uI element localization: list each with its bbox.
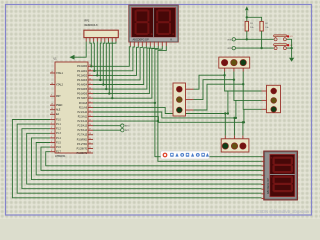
svg-text:XTAL1: XTAL1 [56, 72, 64, 75]
DS2 pin stubs [262, 156, 265, 158]
svg-text:9: 9 [51, 95, 52, 97]
svg-text:P1.6: P1.6 [56, 147, 61, 149]
svg-text:CSDN @hkmdfvb_zbgxqiov: CSDN @hkmdfvb_zbgxqiov [256, 209, 310, 214]
svg-text:P2.1/A9: P2.1/A9 [79, 106, 88, 109]
svg-text:P2.6/A14: P2.6/A14 [78, 129, 88, 132]
wire P1.4 net [31, 138, 261, 180]
svg-text:P3.0/RXD: P3.0/RXD [77, 139, 88, 141]
svg-text:7: 7 [51, 146, 52, 148]
TL4 pin stubs [225, 136, 243, 139]
svg-text:P0.4/AD4: P0.4/AD4 [77, 83, 88, 86]
svg-text:P1.1: P1.1 [56, 124, 61, 126]
wire P0.6 net [93, 42, 154, 95]
svg-text:22: 22 [89, 106, 91, 108]
wire buttons to ground [287, 39, 293, 58]
svg-text:27: 27 [89, 129, 91, 131]
svg-text:PSEN: PSEN [56, 105, 63, 107]
svg-text:3: 3 [51, 127, 52, 129]
svg-text:35: 35 [89, 83, 91, 85]
wire P2 signal to traffic light TL4 pin 2 [93, 112, 236, 136]
svg-text:32: 32 [89, 97, 91, 99]
svg-text:P0.1/AD1: P0.1/AD1 [77, 70, 88, 73]
resistor R2 10k [260, 21, 269, 31]
7-segment display DS1 (top, 2-digit) [129, 5, 179, 46]
svg-text:RST: RST [56, 96, 61, 98]
wire P0.7 net [93, 42, 158, 100]
svg-text:29: 29 [51, 104, 53, 106]
svg-text:P0.7/AD7: P0.7/AD7 [77, 97, 88, 100]
svg-text:6: 6 [51, 141, 52, 143]
wire P0.3 net [93, 42, 142, 82]
wire VCC branch to R2 [246, 16, 262, 21]
svg-text:28: 28 [89, 133, 91, 135]
svg-text:P1.5: P1.5 [56, 142, 61, 144]
button K1 [274, 35, 294, 41]
power terminal VCC (left arrow) on RP1 common [70, 42, 87, 60]
svg-text:ABCDEFG DP: ABCDEFG DP [133, 39, 150, 42]
svg-text:21: 21 [89, 101, 91, 103]
TL2 pin stubs [225, 68, 244, 71]
svg-text:AT89C51: AT89C51 [55, 155, 66, 158]
svg-text:P0.2/AD2: P0.2/AD2 [77, 74, 88, 77]
ground terminal [289, 58, 294, 62]
wire red lamp net: TL1-TL2-TL3 [194, 72, 262, 115]
svg-text:P0.3/AD3: P0.3/AD3 [77, 79, 88, 82]
svg-text:34: 34 [89, 87, 91, 89]
wire P1.7 net [46, 152, 262, 166]
svg-text:23: 23 [89, 110, 91, 112]
svg-text:P2.4/A12: P2.4/A12 [78, 120, 88, 123]
traffic light TL4 (bottom, horizontal) [221, 139, 249, 152]
svg-text:8: 8 [51, 150, 52, 152]
svg-text:P2.3/A11: P2.3/A11 [78, 115, 88, 118]
svg-text:4: 4 [51, 132, 52, 134]
wire P0.2 net [93, 42, 138, 77]
svg-text:1: 1 [51, 118, 52, 120]
button K2 [274, 44, 294, 50]
traffic light TL2 (top, horizontal) [219, 57, 250, 68]
svg-text:XTAL2: XTAL2 [56, 83, 64, 86]
node INT0 terminal and wire through R1 to button K1 [227, 31, 273, 41]
svg-text:24: 24 [89, 115, 91, 117]
svg-text:RESPACK-8: RESPACK-8 [85, 24, 99, 27]
svg-text:11: 11 [89, 142, 91, 144]
TL1 pin stubs [186, 89, 194, 110]
svg-text:5: 5 [51, 136, 52, 138]
traffic light TL1 (left, vertical) [173, 83, 186, 116]
power terminal VCC (up arrow) [245, 6, 249, 21]
svg-text:P1.7: P1.7 [56, 152, 61, 154]
wire green lamp net: TL1-TL2-TL3 [194, 72, 262, 124]
svg-text:P0.5/AD5: P0.5/AD5 [77, 88, 88, 91]
wire P1.2 net [22, 129, 262, 189]
svg-text:P1.2: P1.2 [56, 129, 61, 131]
wire P0.0 net [90, 42, 130, 68]
node INT1 terminal and wire through R2 to button K2 [227, 31, 273, 50]
traffic light TL3 (right, vertical) [267, 85, 281, 112]
wire P1.0 net [12, 120, 261, 198]
svg-text:37: 37 [89, 74, 91, 76]
svg-text:P2.0/A8: P2.0/A8 [79, 102, 88, 105]
svg-text:33: 33 [89, 92, 91, 94]
svg-text:38: 38 [89, 69, 91, 71]
svg-text:30: 30 [51, 108, 53, 110]
MCU U1 AT89C51 body [55, 62, 88, 153]
node INT0 terminal at U1 [93, 124, 130, 128]
wire digit-common net 1 (DS1 pin9 / P2.1 / DS2 pin1) [93, 46, 262, 157]
wire P1.1 net [17, 124, 261, 193]
svg-text:P1.3: P1.3 [56, 133, 61, 135]
resistor pack RP1 RESPACK-8 [84, 20, 118, 42]
svg-text:P2.2/A10: P2.2/A10 [78, 111, 88, 114]
wire digit-common net 2 (DS1 pin10 / P2.4 / DS2 pin2) [93, 46, 262, 161]
svg-text:26: 26 [89, 124, 91, 126]
screenshot toolbar overlay [161, 151, 209, 159]
svg-text:10k: 10k [265, 27, 268, 29]
svg-text:RP1: RP1 [85, 20, 90, 23]
svg-text:25: 25 [89, 120, 91, 122]
svg-text:10: 10 [89, 138, 91, 140]
TL3 pin stubs [262, 91, 267, 109]
svg-text:31: 31 [51, 113, 53, 115]
wire P0.4 net [93, 42, 146, 86]
resistor R1 10k [245, 21, 254, 31]
node INT1 terminal at U1 [93, 129, 130, 133]
wire P1.3 net [27, 133, 262, 184]
DS1 pin stubs [129, 42, 131, 47]
U1 left pin stubs and labels [50, 71, 64, 153]
7-segment display DS2 (bottom-right, rotated 2-digit) [262, 151, 298, 200]
svg-text:P3.3/INT1: P3.3/INT1 [77, 153, 88, 155]
svg-text:P0.0/AD0: P0.0/AD0 [77, 65, 88, 68]
svg-text:13: 13 [89, 151, 91, 153]
wire P2 signal to traffic light TL4 pin 3 [93, 117, 244, 136]
svg-text:P1.0: P1.0 [56, 119, 61, 121]
svg-text:ALE: ALE [56, 109, 61, 112]
svg-text:36: 36 [89, 78, 91, 80]
svg-text:18: 18 [51, 83, 53, 85]
wire yellow lamp net: TL1-TL2-TL3 [194, 72, 262, 120]
wire P1.5 net [36, 143, 261, 175]
wire TL3 drop to TL4 row [235, 100, 237, 118]
svg-text:12: 12 [89, 147, 91, 149]
wire P1.6 net [41, 147, 262, 170]
svg-text:19: 19 [51, 71, 53, 73]
wire TL3 drop to TL4 row [243, 109, 245, 122]
svg-text:ABCDEFG DP: ABCDEFG DP [267, 178, 270, 194]
svg-text:2: 2 [51, 123, 52, 125]
wire P2 signal to traffic light TL4 pin 1 [93, 107, 228, 135]
wire P0.5 net [93, 42, 150, 91]
svg-text:P2.5/A13: P2.5/A13 [78, 125, 88, 128]
svg-text:P1.4: P1.4 [56, 138, 61, 140]
svg-text:P3.2/INT0: P3.2/INT0 [77, 148, 88, 150]
svg-text:EA: EA [56, 113, 60, 116]
U1 right pin stubs and labels [77, 65, 93, 155]
wire TL3 drop to TL4 row [227, 91, 229, 114]
svg-text:P2.7/A15: P2.7/A15 [78, 134, 88, 137]
svg-text:P0.6/AD6: P0.6/AD6 [77, 93, 88, 96]
wire P0.1 net [93, 42, 134, 73]
svg-text:10k: 10k [250, 27, 253, 29]
svg-text:P3.1/TXD: P3.1/TXD [77, 144, 87, 146]
